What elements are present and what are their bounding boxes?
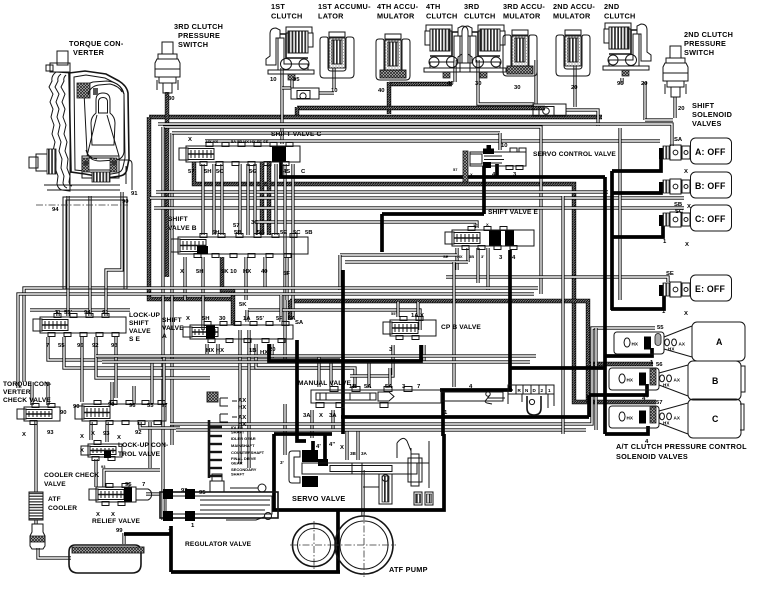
svg-text:20: 20 [571,85,578,91]
wire line 40 accumulator-clutch [389,82,452,86]
wire thick stub [380,214,384,252]
transmission case [63,197,127,289]
wire solenoid C return [611,226,663,237]
svg-text:5H: 5H [202,316,210,322]
svg-text:5G: 5G [257,230,265,236]
svg-text:X: X [22,432,26,438]
wire valve B port HX [244,257,247,300]
accumulator [320,32,354,78]
wire cpb top [416,302,419,317]
wire lock-up ctl 96 [132,386,135,404]
svg-text:X: X [684,169,688,175]
svg-text:95: 95 [199,490,206,496]
shift valve E [445,227,534,250]
wire mid run 3 [248,310,420,330]
svg-text:SHIFT VALVE C: SHIFT VALVE C [271,131,322,138]
svg-text:40: 40 [261,269,268,275]
svg-text:1A: 1A [243,316,251,322]
svg-text:20: 20 [678,106,685,112]
ATF cooler [29,492,43,520]
wire servo valve thick box [274,434,444,510]
shift valve C [179,143,300,166]
svg-text:MAINSHAFT: MAINSHAFT [231,443,255,448]
wire relief feed [104,470,160,487]
svg-text:4S: 4S [283,169,290,175]
svg-text:AX: AX [674,378,681,383]
clutch assembly [424,25,472,78]
wire line 10 from 1st clutch [280,68,283,144]
svg-text:SE: SE [443,254,449,259]
svg-text:REGULATOR VALVE: REGULATOR VALVE [185,541,252,548]
wire manual riser b [329,362,332,387]
wire right bundle 3 [594,328,597,430]
wire line 10 drop to servo control [498,133,501,150]
svg-text:S E: S E [129,336,141,343]
wire row C line 4 [605,426,648,434]
svg-text:5K 10: 5K 10 [221,269,237,275]
wire line 92 run [96,337,210,378]
torque converter check valve [17,404,60,425]
svg-text:57: 57 [656,400,663,406]
regulator valve [160,474,278,521]
svg-text:57: 57 [233,223,240,229]
svg-text:VALVE: VALVE [44,481,66,488]
svg-text:HX HX: HX HX [206,139,219,144]
svg-text:LOCK-UP: LOCK-UP [129,312,161,319]
svg-text:91: 91 [131,191,138,197]
wire line 20 accumulator drop [573,60,576,107]
wire pan thick run [171,570,340,574]
wire line 30 accumulator drop [534,60,537,104]
svg-text:X: X [111,512,115,518]
svg-text:IDLER GEAR: IDLER GEAR [231,436,256,441]
svg-text:RELIEF VALVE: RELIEF VALVE [92,518,141,525]
wire line 10 accumulator [332,62,335,89]
svg-text:1ST ACCUMU-: 1ST ACCUMU- [318,2,371,11]
svg-text:X: X [91,431,95,437]
accumulator [503,30,537,76]
svg-text:VALVE B: VALVE B [168,225,197,232]
wire low run 4 [176,428,586,431]
svg-text:3RD ACCU-: 3RD ACCU- [503,2,545,11]
wire valve A port 1A [245,310,248,322]
svg-text:SHIFT VALVE E: SHIFT VALVE E [488,209,539,216]
wire lock-up ctl 93 [105,422,108,442]
wire solenoid B return [612,186,661,193]
solenoid B housing edge [741,366,745,392]
wire main line upper 2 [297,106,545,110]
svg-text:4”: 4” [642,396,648,402]
svg-text:40: 40 [447,81,454,87]
wire low run 1 [96,354,536,357]
svg-text:1ST: 1ST [271,2,285,11]
wire bundle left 2 [170,133,173,445]
svg-text:HX: HX [627,378,634,383]
wire cpb top 55' [396,302,399,317]
svg-text:30: 30 [168,96,175,102]
wire valve C-B port [238,164,241,235]
svg-text:A: A [162,333,167,340]
svg-text:94: 94 [52,207,59,213]
wire line SA [205,139,660,142]
wire pump feed [361,470,364,516]
wire manual 5A up [367,360,370,388]
wire 2nd clutch 95 stub [620,78,623,84]
svg-text:4’: 4’ [316,444,321,450]
wire thick link upper [510,366,605,370]
svg-text:93: 93 [47,430,54,436]
wire thick elbow [587,395,591,417]
wire line 4' thick drop [297,340,306,441]
svg-text:HX: HX [238,405,246,411]
svg-text:90: 90 [60,410,67,416]
svg-text:55: 55 [657,325,664,331]
svg-text:3’: 3’ [481,254,484,259]
svg-text:A: OFF: A: OFF [695,147,726,157]
relief valve outlet [136,489,152,500]
wire servo 3' feed [283,404,286,455]
wire lock-up ctl 97 [162,356,165,404]
wire servo 3A feed [356,430,359,460]
svg-text:55: 55 [58,343,65,349]
svg-text:30: 30 [475,81,482,87]
svg-text:5C: 5C [216,169,224,175]
svg-text:X: X [80,448,84,454]
svg-text:HX HX: HX HX [206,348,224,354]
servo valve [289,438,433,505]
svg-text:CLUTCH: CLUTCH [426,12,458,21]
svg-text:PRESSURE: PRESSURE [684,39,726,48]
wire timing valve to relief [94,459,97,487]
shift valve A [183,322,293,343]
wire manual 3A down 2 [331,410,334,430]
svg-text:10: 10 [501,143,508,149]
wire line 1B to manual valve [256,344,355,388]
wire servo box top edge [274,432,332,436]
wire servo control drop [482,166,486,214]
svg-text:57: 57 [188,169,195,175]
wire mid drop d [247,330,250,468]
wire lock-up ctl X stub [89,422,92,440]
svg-text:4TH: 4TH [426,2,441,11]
svg-text:MULATOR: MULATOR [503,12,541,21]
svg-text:X: X [470,172,473,177]
pressure switch [155,42,180,93]
wire main line upper [149,115,602,119]
svg-text:COOLER: COOLER [48,505,77,512]
wire valve B port 5H [201,257,204,330]
wire case to lock-up 94 [88,196,91,316]
lock-up timing valve [81,441,122,461]
svg-text:A/T CLUTCH PRESSURE CONTROL: A/T CLUTCH PRESSURE CONTROL [616,442,747,451]
svg-text:PRESSURE: PRESSURE [178,31,220,40]
wire valve C-B port [220,164,223,235]
wire valve B port 5F [285,257,288,300]
svg-text:96: 96 [129,403,136,409]
wire line 5G a [260,162,264,235]
lubrication feed stubs [208,420,211,478]
oil pan strainer [69,545,144,573]
wire valve B port X [183,257,186,300]
svg-text:TORQUE CON-: TORQUE CON- [69,39,124,48]
wire cpb port 3 [350,345,393,376]
AX HX port stubs [220,398,237,422]
A/T clutch pressure control solenoid valve A [614,322,745,361]
svg-text:3RD CLUTCH: 3RD CLUTCH [174,22,223,31]
wire line SA valve C to valve A [291,164,294,318]
svg-text:95: 95 [125,482,132,488]
svg-text:97: 97 [161,403,168,409]
svg-text:SOLENOID VALVES: SOLENOID VALVES [616,452,688,461]
ATF pump [290,521,338,569]
wire check valve inlet [282,86,291,89]
solenoid C housing edge [740,404,744,430]
wire row B line 4'' [589,384,647,395]
wire line 1 drop [441,390,445,436]
wire line 30 pressure switch [165,92,169,277]
svg-text:ATF PUMP: ATF PUMP [389,565,428,574]
wire line 5K [222,257,233,325]
wire servo 3B feed [345,430,348,460]
svg-text:55’: 55’ [391,311,397,316]
wire bundle left [161,127,164,520]
svg-text:A: A [716,337,723,347]
svg-text:3A: 3A [303,413,311,419]
svg-text:3RD: 3RD [464,2,479,11]
svg-text:1A X: 1A X [411,313,424,319]
svg-text:SHIFT: SHIFT [129,320,149,327]
svg-text:B: B [712,376,719,386]
wire line 99 [122,533,125,544]
svg-text:P: P [510,388,513,393]
svg-text:GEAR: GEAR [231,461,243,466]
svg-text:X: X [117,435,121,441]
wire line 96 [80,337,83,402]
wire relief out [146,492,160,495]
wire thick main cross [279,175,605,179]
wire valve E run drop [338,255,341,290]
svg-text:30: 30 [219,316,226,322]
wire line 40 clutch stub [453,60,456,82]
wire valve A port 5F [279,295,282,322]
wire line 55 run [64,337,350,368]
wire line SA upper [158,124,672,146]
wire solenoid E return [611,295,664,309]
clutch assembly [266,27,314,80]
wire row A line 1 [605,348,652,356]
svg-text:X: X [340,445,344,451]
svg-text:2: 2 [541,388,544,393]
wire line 93 [114,337,117,398]
svg-text:90: 90 [73,404,80,410]
svg-text:SHIFT: SHIFT [692,101,715,110]
wire servo control port 4 [495,164,499,177]
wire line 56/57 lower route [290,301,588,402]
svg-text:5H: 5H [196,269,204,275]
wire valve E port 3' [486,248,489,290]
svg-text:10: 10 [331,88,338,94]
lock-up shift valve [33,314,126,337]
wire manual riser a [317,356,320,387]
wire line SE [446,277,668,282]
svg-text:COOLER CHECK: COOLER CHECK [44,472,99,479]
wire lock-up port X stub [56,310,59,316]
clutch assembly [603,23,651,76]
svg-text:5H: 5H [212,230,220,236]
wire valve B port 40 [263,257,266,288]
svg-text:4”: 4” [329,442,335,448]
svg-text:X: X [684,311,688,317]
svg-text:VERTER: VERTER [73,48,105,57]
wire servo 4' feed [311,441,315,450]
wire cooler to funnel [34,519,37,524]
wire 2nd switch line 20 [673,97,676,118]
wire line 10 feed [172,131,500,134]
wire thick low run [341,415,589,419]
svg-text:X: X [685,242,689,248]
clutch assembly [458,25,506,78]
wire main line left border [149,117,234,299]
wire line SB [150,196,684,199]
svg-text:5B: 5B [305,230,313,236]
svg-text:30: 30 [514,85,521,91]
wire valve E line 3 drop [508,250,512,390]
svg-text:55’: 55’ [256,316,265,322]
shift valve B spool land [197,246,208,254]
wire cpb line 1 to valve A [269,344,421,361]
wire valve C-B port 5H [201,164,204,235]
svg-text:92: 92 [92,343,99,349]
svg-text:90: 90 [108,402,115,408]
selector detent [508,394,554,408]
accumulator [556,30,590,76]
svg-text:5B: 5B [234,230,242,236]
wire valve A port HX [205,344,208,354]
svg-text:5H: 5H [204,169,212,175]
cooler outlet funnel [30,524,45,549]
wire valve E port HX [466,248,469,262]
svg-text:1B: 1B [349,384,357,390]
svg-text:LOCK-UP CON-: LOCK-UP CON- [118,442,168,449]
svg-text:X: X [180,269,184,275]
svg-text:91: 91 [102,310,109,316]
svg-text:AX: AX [238,415,246,421]
svg-text:5A 5B HX HX SE SE: 5A 5B HX HX SE SE [231,139,269,144]
CP B valve [383,317,436,340]
wire cpb port 1 [422,345,425,362]
shift solenoid valve C [659,205,732,231]
svg-text:10: 10 [270,77,277,83]
wire valve E run a [340,253,457,256]
wire mid run 4 [30,308,130,311]
svg-text:SWITCH: SWITCH [178,40,208,49]
svg-text:X: X [55,310,59,316]
pressure switch [663,46,688,97]
wire valve C-B port 5E [274,164,277,235]
svg-text:3B: 3B [469,254,474,259]
A/T clutch pressure control solenoid valve C [609,399,741,438]
svg-text:B: OFF: B: OFF [695,181,726,191]
svg-text:X: X [486,222,489,227]
svg-text:TORQUE CON-: TORQUE CON- [3,381,51,388]
svg-text:HX: HX [632,342,639,347]
svg-text:COUNTERSHAFT: COUNTERSHAFT [231,450,265,455]
svg-text:LATOR: LATOR [318,12,344,21]
breather vent symbol [207,392,218,402]
wire valve A port 20 [270,344,273,358]
svg-text:CP B VALVE: CP B VALVE [441,324,481,331]
wire line 99 link [124,532,171,536]
svg-text:X: X [188,137,192,143]
svg-text:SA: SA [674,137,683,143]
svg-text:93: 93 [101,464,106,469]
svg-text:57: 57 [453,167,458,172]
shift solenoid valve B [659,172,732,198]
svg-text:AX: AX [674,416,681,421]
svg-text:5A: 5A [385,384,393,390]
wire line 57 route [194,162,656,402]
svg-text:SHAFT: SHAFT [231,472,245,477]
timing valve black land [104,451,111,458]
svg-text:E: OFF: E: OFF [695,284,725,294]
check valve CV2 [533,104,566,116]
wire valve C-B port [246,164,249,235]
wire center thick drop [341,270,345,434]
wire manual 5A2 up [388,368,391,388]
manual valve [311,387,503,408]
svg-text:MULATOR: MULATOR [377,12,415,21]
svg-text:2ND CLUTCH: 2ND CLUTCH [684,30,733,39]
svg-text:MANUAL VALVE: MANUAL VALVE [298,380,352,387]
svg-text:2ND ACCU-: 2ND ACCU- [553,2,595,11]
svg-text:C: C [712,414,719,424]
svg-text:AX: AX [679,342,686,347]
wire valve E run b [345,260,468,263]
svg-text:X: X [186,316,190,322]
svg-text:3’: 3’ [280,460,284,465]
wire line 5G b [267,162,271,235]
wire servo 4'' feed [323,434,327,460]
wire line 30 clutch drop [478,60,534,104]
wire solenoid bus a [610,171,614,310]
svg-text:SE: SE [666,271,674,277]
svg-text:TROL VALVE: TROL VALVE [118,451,161,458]
svg-text:2ND: 2ND [604,2,619,11]
wire bundle top [163,127,541,294]
wire line 95 stub [290,80,293,88]
svg-text:HX: HX [627,416,634,421]
wire mid drop c [238,330,241,464]
svg-text:3A: 3A [329,413,337,419]
svg-text:SERVO VALVE: SERVO VALVE [292,494,345,503]
svg-text:SA: SA [295,320,304,326]
svg-text:5C: 5C [293,230,301,236]
svg-text:3C: 3C [251,220,259,226]
svg-text:CLUTCH: CLUTCH [604,12,636,21]
wire valve C-B port 5G [253,164,256,235]
wire cross run a [156,190,608,193]
wire valve A port HX2 [216,344,219,354]
svg-text:92: 92 [181,488,188,494]
wire line 7 run [48,337,340,360]
svg-text:40: 40 [378,88,385,94]
wire funnel to pan [38,548,71,558]
shift solenoid valve E [659,275,732,301]
svg-text:HX: HX [243,269,251,275]
svg-text:HX: HX [260,350,268,356]
svg-text:X: X [80,434,84,440]
servo control valve [463,145,526,182]
